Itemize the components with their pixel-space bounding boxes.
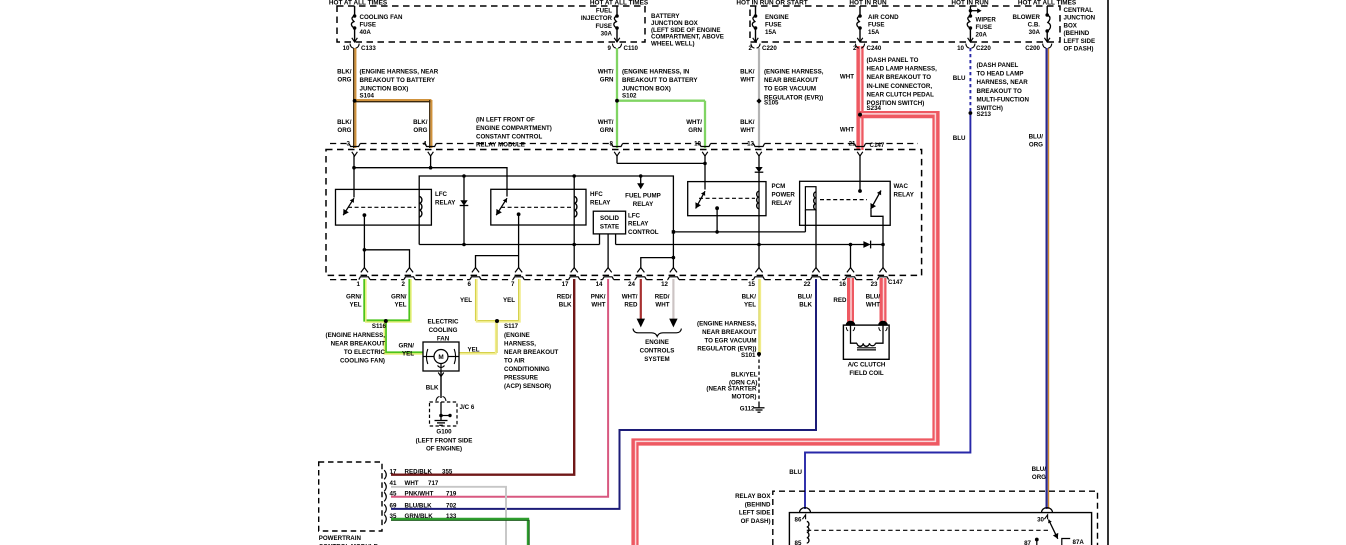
svg-text:BREAKOUT TO BATTERY: BREAKOUT TO BATTERY xyxy=(622,77,698,84)
ground symbol G100 xyxy=(440,416,442,421)
connector C220 pin 10 exit symbol xyxy=(968,38,974,42)
wire HFC output to pins 6 and 7 xyxy=(518,214,520,268)
svg-text:BLK/: BLK/ xyxy=(740,119,755,126)
wire PCM relay output down to y232 xyxy=(716,208,718,232)
A/C clutch field coil box xyxy=(843,325,889,359)
svg-text:GRN/: GRN/ xyxy=(346,294,362,301)
svg-text:RELAY: RELAY xyxy=(772,200,793,207)
svg-text:GRN: GRN xyxy=(688,127,702,134)
wire pin3 down to LFC switch xyxy=(353,155,355,198)
svg-text:85: 85 xyxy=(795,540,802,545)
junction S101 xyxy=(757,352,761,356)
svg-text:WHT/: WHT/ xyxy=(598,119,614,126)
svg-text:ORG: ORG xyxy=(1029,142,1043,149)
svg-text:WHT: WHT xyxy=(740,127,754,134)
thick red highlight wire BLU/WHT CCRM pin 23 to A/C clutch field coil xyxy=(880,278,887,325)
svg-text:GRN/: GRN/ xyxy=(391,294,407,301)
svg-text:BREAKOUT TO BATTERY: BREAKOUT TO BATTERY xyxy=(360,77,436,84)
junction dot HFC coil top xyxy=(572,174,576,178)
LFC relay switch contact arm xyxy=(343,198,354,215)
wire BLK cooling fan to J/C 6 xyxy=(440,371,442,398)
svg-text:86: 86 xyxy=(795,517,802,524)
connector arc into J/C 6 xyxy=(436,397,440,402)
svg-text:6: 6 xyxy=(468,281,472,288)
relay switch arm from pin 30 xyxy=(1049,520,1058,539)
A/C clutch connector dome pin 23 xyxy=(879,321,888,325)
svg-text:FUSE: FUSE xyxy=(976,24,993,31)
junction dot diode top xyxy=(462,174,466,178)
svg-text:22: 22 xyxy=(804,281,811,288)
junction dot rail at pin16 drop xyxy=(849,243,853,247)
A/C clutch coil winding inner outline xyxy=(851,325,858,343)
svg-text:87: 87 xyxy=(1024,540,1031,545)
WAC relay actuating dashed link xyxy=(820,199,867,201)
svg-text:ORG: ORG xyxy=(413,127,427,134)
svg-text:GRN: GRN xyxy=(600,127,614,134)
svg-text:17: 17 xyxy=(390,469,397,476)
svg-text:(ENGINE HARNESS, NEAR: (ENGINE HARNESS, NEAR xyxy=(360,69,439,76)
svg-text:HARNESS,: HARNESS, xyxy=(504,340,536,347)
wire BLK/ORG branch S104 to CCRM pin 4 xyxy=(354,101,431,103)
svg-text:30A: 30A xyxy=(1029,29,1041,36)
junction dot diode bottom xyxy=(462,243,466,247)
junction dot pin8/pin10 xyxy=(703,162,707,166)
wire pin21 down to WAC relay contact xyxy=(859,155,861,191)
svg-text:BLU: BLU xyxy=(953,75,966,82)
svg-text:LFC: LFC xyxy=(435,191,448,198)
wire inside J/C 6 xyxy=(440,402,442,416)
wire WHT PCM pin 41 going down xyxy=(391,487,506,545)
svg-text:GRN/BLK: GRN/BLK xyxy=(405,513,434,520)
wire WAC throw down to rail xyxy=(882,225,884,244)
fuse: engine fuse 15A xyxy=(755,6,757,16)
CCRM pin 4 connector xyxy=(425,144,436,147)
svg-text:GRN/: GRN/ xyxy=(399,343,415,350)
svg-text:(ENGINE HARNESS,: (ENGINE HARNESS, xyxy=(326,332,386,339)
svg-text:14: 14 xyxy=(596,281,603,288)
svg-text:HOT IN RUN: HOT IN RUN xyxy=(849,0,887,6)
relay contact 87A bracket xyxy=(1062,539,1070,545)
engine controls system arrow from pin 24 xyxy=(637,319,645,328)
junction S213 xyxy=(969,111,973,115)
svg-text:C133: C133 xyxy=(361,45,376,52)
HFC relay switch contact arm xyxy=(496,198,507,215)
svg-text:WIPER: WIPER xyxy=(976,17,997,24)
svg-text:CONTROLS: CONTROLS xyxy=(640,348,675,355)
svg-text:FUSE: FUSE xyxy=(595,23,612,30)
connector C133 exit symbol xyxy=(352,38,358,42)
relay fixed contact 87 xyxy=(1035,538,1039,542)
svg-text:BLK/: BLK/ xyxy=(740,69,755,76)
wire RED/WHT CCRM pin 12 to engine controls system xyxy=(672,279,674,319)
svg-text:FUEL: FUEL xyxy=(596,8,612,15)
svg-text:20A: 20A xyxy=(976,32,988,39)
wire BLK/YEL dashed S101 to G112 xyxy=(758,354,760,405)
CCRM bottom pin 14 connector xyxy=(605,268,612,273)
CCRM bottom pin 6 connector xyxy=(472,268,479,273)
wire WHT/GRN C110 to S102 to CCRM pin 8 xyxy=(616,48,618,148)
svg-text:2: 2 xyxy=(853,45,857,52)
svg-text:3: 3 xyxy=(347,141,351,148)
WAC relay throw to lower right xyxy=(871,209,883,225)
svg-text:10: 10 xyxy=(957,45,964,52)
svg-text:G112: G112 xyxy=(740,406,755,413)
svg-text:9: 9 xyxy=(608,45,612,52)
HFC relay actuating dashed link xyxy=(501,206,571,208)
svg-text:RELAY: RELAY xyxy=(435,200,456,207)
engine controls system arrow from pin 12 xyxy=(669,319,677,328)
CCRM bottom pin 16 connector xyxy=(847,268,854,273)
svg-text:YEL: YEL xyxy=(349,302,361,309)
svg-text:NEAR BREAKOUT: NEAR BREAKOUT xyxy=(504,349,559,356)
svg-text:C220: C220 xyxy=(762,45,777,52)
svg-text:(DASH PANEL TO: (DASH PANEL TO xyxy=(867,57,919,64)
wire YEL S117 to cooling fan motor xyxy=(459,321,497,353)
svg-text:(BEHIND: (BEHIND xyxy=(745,501,771,508)
cooling fan motor symbol xyxy=(423,356,434,358)
LFC relay output node xyxy=(363,213,367,217)
CCRM constant control relay module box (dashed) xyxy=(326,150,922,276)
junction square dot x=673 y=232 xyxy=(672,230,675,233)
svg-text:PCM: PCM xyxy=(772,183,786,190)
PCM pin bracket xyxy=(384,492,386,501)
svg-text:YEL: YEL xyxy=(744,302,756,309)
CCRM bottom pin 23 connector xyxy=(879,268,886,273)
junction block J/C 6 (dashed) xyxy=(430,402,458,426)
svg-text:(DASH PANEL: (DASH PANEL xyxy=(977,62,1019,69)
wire pin13 down to diode xyxy=(758,155,760,167)
wire rail drop to pin 16 xyxy=(850,245,852,269)
svg-text:YEL: YEL xyxy=(394,302,406,309)
svg-text:RELAY MODULE: RELAY MODULE xyxy=(476,142,525,149)
svg-text:HEAD LAMP HARNESS,: HEAD LAMP HARNESS, xyxy=(867,66,938,73)
svg-text:21: 21 xyxy=(849,141,856,148)
wire y=232 from x=673 to WAC coil xyxy=(673,231,805,233)
svg-text:LFC: LFC xyxy=(628,213,641,220)
svg-text:(ENGINE: (ENGINE xyxy=(504,332,530,339)
svg-text:FUSE: FUSE xyxy=(868,21,885,28)
top rail y=176 inside CCRM xyxy=(419,176,673,268)
relay solid box xyxy=(789,513,1091,545)
svg-text:7: 7 xyxy=(511,281,515,288)
svg-text:HOT AT ALL TIMES: HOT AT ALL TIMES xyxy=(1018,0,1077,6)
diode on PCM power relay feed xyxy=(755,167,762,172)
svg-text:WHEEL WELL): WHEEL WELL) xyxy=(651,40,695,47)
svg-text:WHT: WHT xyxy=(655,302,669,309)
svg-text:WHT: WHT xyxy=(840,127,854,134)
junction S104 xyxy=(353,99,357,103)
svg-text:WHT/: WHT/ xyxy=(686,119,702,126)
CCRM pin 10 connector xyxy=(699,144,710,147)
svg-text:BLK: BLK xyxy=(426,385,439,392)
svg-text:WHT: WHT xyxy=(740,77,754,84)
svg-text:17: 17 xyxy=(562,281,569,288)
svg-text:45: 45 xyxy=(390,491,397,498)
WAC relay coil box xyxy=(805,187,816,210)
svg-text:BLU/: BLU/ xyxy=(1029,134,1044,141)
thick red highlight wire from S234 right, down right side, left along bottom, down to page edge xyxy=(635,115,936,545)
svg-text:BLU/: BLU/ xyxy=(1032,466,1047,473)
arrow stub to fuel pump relay xyxy=(640,176,642,184)
thick red highlight wire RED CCRM pin 16 to A/C clutch field coil xyxy=(847,278,854,325)
brace under engine controls arrows xyxy=(633,329,681,337)
svg-text:BOX: BOX xyxy=(1064,22,1078,29)
wire BLK/WHT C220 to S105 to CCRM pin 13 xyxy=(758,48,760,148)
wire BLK/ORG C133 to S104 to CCRM pin 3 xyxy=(353,48,355,148)
svg-text:RED/: RED/ xyxy=(557,294,572,301)
svg-text:717: 717 xyxy=(428,480,439,487)
wire GRN/BLK PCM pin 35 going down xyxy=(391,519,528,545)
HFC relay output node xyxy=(517,212,521,216)
wire junction rail y167.7 to HFC switch xyxy=(354,168,507,197)
junction dot pin 24 branch xyxy=(672,256,676,260)
page right border xyxy=(1107,0,1109,545)
svg-text:702: 702 xyxy=(446,503,457,510)
svg-text:TO EGR VACUUM: TO EGR VACUUM xyxy=(704,337,756,344)
svg-text:719: 719 xyxy=(446,491,457,498)
PCM pin bracket xyxy=(384,470,386,479)
svg-text:RELAY BOX: RELAY BOX xyxy=(735,493,771,500)
wire branch to pin 2 xyxy=(364,250,409,268)
svg-text:NEAR BREAKOUT: NEAR BREAKOUT xyxy=(764,77,819,84)
CCRM bottom connector dashed line C147 xyxy=(330,279,359,281)
junction S116 xyxy=(384,319,388,323)
CCRM top connector dashed line C147 xyxy=(330,143,349,145)
wire BLU dashed C220 pin 10 to S213 xyxy=(969,48,971,114)
wire solid state right leg to rail xyxy=(615,234,617,245)
svg-text:BLK/: BLK/ xyxy=(337,69,352,76)
svg-text:WHT/: WHT/ xyxy=(598,69,614,76)
svg-text:S213: S213 xyxy=(977,111,992,118)
wire diode through PCM relay coil to pin 15 xyxy=(758,172,760,268)
svg-text:HOT IN RUN: HOT IN RUN xyxy=(951,0,989,6)
svg-text:RED/BLK: RED/BLK xyxy=(405,469,433,476)
svg-text:S116: S116 xyxy=(372,323,387,330)
svg-text:40A: 40A xyxy=(360,29,372,36)
wire LFC output to pin 1 xyxy=(363,215,365,268)
svg-text:FUSE: FUSE xyxy=(360,21,377,28)
svg-text:30A: 30A xyxy=(601,30,613,37)
svg-text:15A: 15A xyxy=(765,29,777,36)
svg-text:S105: S105 xyxy=(764,100,779,107)
LFC relay switch box xyxy=(336,189,432,225)
svg-text:OF DASH): OF DASH) xyxy=(1064,46,1094,53)
svg-text:ORG: ORG xyxy=(1032,474,1046,481)
svg-text:S104: S104 xyxy=(360,93,375,100)
svg-text:NEAR CLUTCH PEDAL: NEAR CLUTCH PEDAL xyxy=(867,91,935,98)
svg-text:(LEFT FRONT SIDE: (LEFT FRONT SIDE xyxy=(416,437,473,444)
wire WAC coil right leg down to pin 22 xyxy=(815,210,817,268)
wire BLU/ORG C200 to relay box pin 30 xyxy=(1048,48,1050,509)
svg-text:CONSTANT CONTROL: CONSTANT CONTROL xyxy=(476,133,542,140)
PCM power relay output node xyxy=(715,206,719,210)
CCRM pin 3 connector xyxy=(349,144,360,147)
svg-text:(ENGINE HARNESS, IN: (ENGINE HARNESS, IN xyxy=(622,69,690,76)
solid state box xyxy=(593,211,625,234)
LFC relay actuating dashed link xyxy=(348,206,416,208)
electric cooling fan box xyxy=(423,342,459,371)
svg-text:HARNESS, NEAR: HARNESS, NEAR xyxy=(977,79,1029,86)
connector C240 exit symbol xyxy=(857,38,863,42)
svg-text:(ENGINE HARNESS,: (ENGINE HARNESS, xyxy=(764,69,824,76)
relay actuating dashed link xyxy=(807,529,1049,531)
svg-text:NEAR BREAKOUT: NEAR BREAKOUT xyxy=(331,340,386,347)
svg-text:FAN: FAN xyxy=(437,335,450,342)
battery junction box (dashed) xyxy=(337,6,645,42)
svg-text:WHT: WHT xyxy=(866,302,880,309)
fuse: air cond fuse 15A xyxy=(859,6,861,16)
svg-text:BLK: BLK xyxy=(559,302,572,309)
svg-text:LEFT SIDE: LEFT SIDE xyxy=(1064,38,1096,45)
A/C clutch connector dome pin 16 xyxy=(846,321,855,325)
PCM power relay switch box xyxy=(688,182,766,216)
svg-text:BLU/: BLU/ xyxy=(866,294,881,301)
svg-text:FUSE: FUSE xyxy=(765,21,782,28)
svg-text:INJECTOR: INJECTOR xyxy=(581,15,613,22)
svg-text:NEAR BREAKOUT: NEAR BREAKOUT xyxy=(702,329,757,336)
junction dot in J/C 6 xyxy=(439,414,443,418)
svg-text:WHT/: WHT/ xyxy=(622,294,638,301)
svg-text:NEAR BREAKOUT TO: NEAR BREAKOUT TO xyxy=(867,74,932,81)
svg-text:C147: C147 xyxy=(870,142,885,149)
connector C220 pin 2 exit symbol xyxy=(753,38,759,42)
svg-text:S234: S234 xyxy=(867,105,882,112)
PCM pin bracket xyxy=(384,514,386,523)
svg-text:RELAY: RELAY xyxy=(590,200,611,207)
wire solid state middle leg to pin 14 xyxy=(607,234,609,268)
bottom rail y=244.5 inside CCRM xyxy=(419,244,599,246)
svg-text:WHT: WHT xyxy=(840,74,854,81)
svg-text:ENGINE COMPARTMENT): ENGINE COMPARTMENT) xyxy=(476,125,552,132)
svg-text:CENTRAL: CENTRAL xyxy=(1064,7,1094,14)
svg-text:(IN LEFT FRONT OF: (IN LEFT FRONT OF xyxy=(476,117,535,124)
wire BLU S213 to relay box pin 86 xyxy=(805,114,970,509)
svg-text:GRN: GRN xyxy=(600,77,614,84)
svg-text:M: M xyxy=(438,354,443,361)
svg-text:BLK/YEL: BLK/YEL xyxy=(731,372,758,379)
svg-text:COOLING FAN: COOLING FAN xyxy=(360,14,403,21)
wire WAC coil left leg down to y232 xyxy=(804,210,806,232)
wire pin4 down to rail xyxy=(430,155,432,168)
svg-text:ENGINE: ENGINE xyxy=(645,339,669,346)
wire branch to pin 24 xyxy=(641,258,674,268)
HFC relay coil on line x=574 xyxy=(574,197,577,218)
svg-text:RED: RED xyxy=(833,297,847,304)
svg-text:C220: C220 xyxy=(976,45,991,52)
svg-text:8: 8 xyxy=(610,141,614,148)
svg-text:TO EGR VACUUM: TO EGR VACUUM xyxy=(764,86,816,93)
svg-text:HOT AT ALL TIMES: HOT AT ALL TIMES xyxy=(329,0,388,6)
svg-text:OF DASH): OF DASH) xyxy=(741,518,771,525)
svg-text:FUEL PUMP: FUEL PUMP xyxy=(625,193,661,200)
svg-text:JUNCTION: JUNCTION xyxy=(1064,15,1096,22)
svg-text:ORG: ORG xyxy=(337,77,351,84)
PCM power relay actuating dashed link xyxy=(699,197,755,199)
svg-text:A/C CLUTCH: A/C CLUTCH xyxy=(848,362,886,369)
svg-text:S101: S101 xyxy=(741,352,756,359)
CCRM bottom pin 7 connector xyxy=(515,268,522,273)
connector arrow below fan xyxy=(438,373,444,377)
svg-text:SOLID: SOLID xyxy=(600,215,619,222)
svg-text:STATE: STATE xyxy=(600,224,619,231)
svg-text:C110: C110 xyxy=(624,45,639,52)
wire BLK/YEL CCRM pin 15 to S101 xyxy=(758,279,760,354)
svg-text:23: 23 xyxy=(871,281,878,288)
wire WHT/RED CCRM pin 24 to engine controls system xyxy=(640,279,642,319)
svg-text:PRESSURE: PRESSURE xyxy=(504,374,538,381)
connector C200 exit symbol xyxy=(1044,38,1050,42)
svg-text:BLOWER: BLOWER xyxy=(1013,14,1041,21)
wire pin10 down to PCM power relay switch xyxy=(704,155,706,190)
clamp diode across LFC relay coil xyxy=(463,176,465,245)
CCRM bottom pin 1 connector xyxy=(361,268,368,273)
svg-text:BLU/: BLU/ xyxy=(798,294,813,301)
svg-text:YEL: YEL xyxy=(468,347,480,354)
central junction box (dashed) xyxy=(750,6,1060,42)
svg-text:YEL: YEL xyxy=(460,297,472,304)
svg-text:PNK/: PNK/ xyxy=(591,294,606,301)
svg-text:(BEHIND: (BEHIND xyxy=(1064,30,1090,37)
WAC relay coil xyxy=(814,192,816,210)
svg-text:HFC: HFC xyxy=(590,191,603,198)
svg-text:BLU: BLU xyxy=(953,135,966,142)
svg-text:TO HEAD LAMP: TO HEAD LAMP xyxy=(977,71,1024,78)
wire RED/BLK CCRM pin 17 to PCM pin 17 xyxy=(391,279,574,475)
svg-text:(NEAR STARTER: (NEAR STARTER xyxy=(706,386,757,393)
WAC relay switch box xyxy=(800,181,891,225)
CCRM bottom pin 2 connector xyxy=(406,268,413,273)
svg-text:ENGINE: ENGINE xyxy=(765,14,789,21)
wire rail to pin 23 xyxy=(882,245,884,269)
PCM power relay switch contact arm xyxy=(696,191,705,208)
fuse: wiper fuse 20A with branch arrow xyxy=(969,6,971,16)
CCRM bottom pin 22 connector xyxy=(812,268,819,273)
svg-text:(ACP) SENSOR): (ACP) SENSOR) xyxy=(504,383,551,390)
svg-text:87A: 87A xyxy=(1073,539,1085,545)
svg-text:SYSTEM: SYSTEM xyxy=(644,356,669,363)
svg-text:HOT AT ALL TIMES: HOT AT ALL TIMES xyxy=(590,0,649,6)
svg-text:COOLING FAN): COOLING FAN) xyxy=(340,357,385,364)
svg-text:13: 13 xyxy=(747,141,754,148)
svg-text:2: 2 xyxy=(749,45,753,52)
svg-text:15A: 15A xyxy=(868,29,880,36)
svg-text:G100: G100 xyxy=(436,429,452,436)
svg-text:24: 24 xyxy=(628,281,635,288)
svg-text:AIR COND: AIR COND xyxy=(868,14,899,21)
svg-text:35: 35 xyxy=(390,513,397,520)
fuse: fuel injector fuse 30A xyxy=(616,6,618,16)
svg-text:OF ENGINE): OF ENGINE) xyxy=(426,446,462,453)
svg-text:S117: S117 xyxy=(504,323,519,330)
wire HFC coil line from rail to pin 17 xyxy=(573,176,575,268)
svg-text:C.B.: C.B. xyxy=(1028,21,1041,28)
connector C110 exit symbol xyxy=(614,38,620,42)
svg-text:BLU: BLU xyxy=(789,469,802,476)
svg-text:1: 1 xyxy=(357,281,361,288)
WAC relay switch contact arm xyxy=(871,191,881,210)
svg-text:10: 10 xyxy=(343,45,350,52)
wire pin8 down and over to pin10 line xyxy=(616,155,618,163)
svg-text:YEL: YEL xyxy=(503,297,515,304)
powertrain control module box (dashed) xyxy=(319,462,382,531)
relay pin 30 connector xyxy=(1042,508,1053,513)
svg-text:BLK/: BLK/ xyxy=(413,119,428,126)
svg-text:POWER: POWER xyxy=(772,191,796,198)
node WAC fixed contact xyxy=(858,189,862,193)
junction S102 xyxy=(615,99,619,103)
svg-text:C200: C200 xyxy=(1025,45,1040,52)
svg-text:BLU/BLK: BLU/BLK xyxy=(405,503,433,510)
